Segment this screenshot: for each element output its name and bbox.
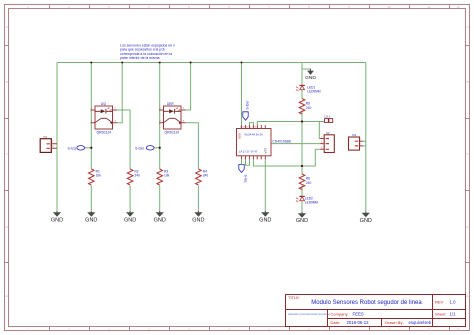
svg-text:10k: 10k: [96, 174, 102, 178]
svg-text:B: B: [467, 80, 469, 84]
svg-text:Drawn By:: Drawn By:: [385, 320, 403, 325]
svg-text:A: A: [467, 25, 469, 29]
wire top GND to LED1: [301, 69, 303, 85]
ground (col R4): [192, 211, 204, 223]
wire M1 pin2 to right rail: [363, 145, 366, 147]
wire IC out to U2 pin2: [271, 143, 320, 145]
op IC U1 CD40106BE: [237, 125, 292, 160]
svg-text:P1: P1: [44, 135, 48, 139]
svg-text:B: B: [6, 80, 8, 84]
resistor R5 240: [299, 99, 311, 115]
svg-text:14 13 12 11 10 9 8: 14 13 12 11 10 9 8: [240, 127, 259, 129]
net label S-Der: [135, 146, 154, 151]
ground (far right): [360, 212, 372, 224]
junction S-Izq node: [90, 147, 92, 149]
junction node A: [301, 120, 303, 122]
ground (col LED2): [296, 212, 308, 224]
svg-text:QRD1114: QRD1114: [97, 131, 112, 135]
wire c3 column (rail to R3): [159, 63, 161, 170]
wire node A branch to U2 pin1: [318, 122, 321, 139]
svg-text:U2: U2: [326, 131, 330, 135]
wire R1 to ground: [90, 186, 92, 212]
wire LED2 to ground: [301, 201, 303, 212]
svg-text:Modulo Sensores Robot segudor: Modulo Sensores Robot segudor de linea: [311, 300, 422, 306]
connector U2: [320, 131, 334, 153]
svg-text:Sheet:: Sheet:: [435, 312, 447, 317]
ground (col R3): [154, 211, 166, 223]
svg-text:E: E: [467, 294, 469, 298]
svg-text:Company:: Company:: [331, 311, 349, 316]
wire rail to IC pin14: [241, 63, 243, 126]
wire GND top rail: [57, 62, 366, 64]
wire IC top loop pins 12-11: [250, 123, 254, 125]
svg-text:TITLE:: TITLE:: [288, 295, 300, 300]
wire R4 to ground: [197, 186, 199, 212]
svg-text:10k: 10k: [164, 174, 170, 178]
svg-text:S-Izq: S-Izq: [68, 147, 76, 151]
resistor R6 240: [299, 174, 311, 190]
svg-text:11: 11: [427, 328, 430, 332]
junction rail/IZQ collector: [121, 61, 123, 63]
wire IC bottom loop pins 2-3: [246, 159, 250, 165]
svg-text:11: 11: [427, 5, 430, 9]
junction rail/DER anode: [190, 61, 192, 63]
resistor R4 240: [196, 169, 209, 185]
wire left column c0: [56, 63, 58, 212]
svg-text:M1: M1: [352, 133, 356, 137]
wire R3 to ground: [159, 186, 161, 212]
wire IZQ collector drop: [117, 63, 122, 123]
svg-text:12: 12: [456, 5, 460, 9]
svg-text:DER: DER: [167, 102, 174, 106]
svg-text:240: 240: [306, 181, 312, 185]
svg-text:12: 12: [456, 328, 460, 332]
wire DER anode drop: [186, 63, 191, 111]
svg-text:S-Der: S-Der: [246, 100, 250, 110]
svg-text:REV: REV: [435, 299, 444, 304]
svg-text:GND: GND: [124, 217, 136, 223]
resistor R2 240: [127, 169, 140, 185]
net flag S-Izq (vertical, below IC pin 1): [239, 159, 248, 182]
wire node B to R6: [301, 166, 303, 174]
svg-text:GND: GND: [192, 217, 204, 223]
wire IC pin9 to node R5: [257, 122, 302, 126]
ground (IC VSS): [259, 211, 271, 223]
svg-text:parte inferior de la misma.: parte inferior de la misma.: [120, 56, 160, 60]
schematic note text: [120, 43, 175, 60]
svg-text:2019-06-12: 2019-06-12: [347, 320, 370, 325]
svg-text:6A 5A 4A 3A 2A: 6A 5A 4A 3A 2A: [245, 133, 263, 137]
svg-text:10: 10: [387, 328, 391, 332]
connector P1: [40, 135, 57, 153]
svg-text:GND: GND: [360, 218, 372, 224]
svg-text:E: E: [6, 294, 8, 298]
net flag S-Der (vertical, above IC pin 13): [243, 100, 250, 120]
wire rail to top GND jog: [302, 63, 311, 71]
svg-text:IZQ: IZQ: [101, 102, 107, 106]
junction S-Der node: [159, 147, 161, 149]
svg-text:A: A: [6, 25, 8, 29]
wire DER collector to R4: [186, 123, 199, 169]
svg-text:1/1: 1/1: [450, 312, 457, 317]
svg-text:CD40106BE: CD40106BE: [272, 139, 292, 143]
svg-text:GND: GND: [51, 217, 63, 223]
svg-text:esquivelseb: esquivelseb: [409, 320, 432, 325]
svg-text:QRD1114: QRD1114: [165, 131, 180, 135]
svg-text:GND: GND: [259, 217, 271, 223]
wire S-Izq stub: [85, 147, 92, 149]
svg-text:240: 240: [306, 106, 312, 110]
wire LED1 to R5: [301, 90, 303, 99]
svg-text:GND: GND: [296, 218, 308, 224]
ground (top right): [305, 69, 316, 81]
wire R6 to LED2: [301, 186, 303, 197]
sensor U4 QRD1114 DER: [159, 102, 186, 135]
ground (col R2): [124, 211, 136, 223]
wire R2 to ground: [129, 186, 131, 212]
svg-text:VSS: VSS: [264, 148, 268, 154]
svg-text:S-Der: S-Der: [135, 147, 145, 151]
jumper U2.1: [324, 114, 332, 122]
wire M1 pin1 to right rail: [363, 140, 366, 142]
junction rail/c3: [159, 61, 161, 63]
diode LED1 LED9MM: [297, 85, 321, 93]
connector M1: [349, 133, 364, 150]
svg-text:easyeda.com/esquivelseb-proyec: easyeda.com/esquivelseb-proyectos: [288, 312, 331, 316]
wire R5 through node A to node B: [301, 111, 303, 167]
svg-text:Date:: Date:: [331, 320, 341, 325]
junction node B: [301, 165, 303, 167]
wire IZQ cathode to R2: [117, 110, 130, 169]
wire far-right drop to GND: [365, 63, 367, 212]
resistor R3 10k: [157, 169, 170, 185]
svg-text:GND: GND: [85, 217, 97, 223]
net label S-Izq: [68, 146, 85, 151]
wire node B to U2 pin3: [302, 149, 320, 166]
sensor U3 QRD1114 IZQ: [91, 102, 118, 135]
svg-text:U2.1: U2.1: [324, 114, 330, 118]
resistor R1 10k: [89, 169, 102, 185]
wire S-Der stub: [154, 147, 159, 149]
title block: [286, 295, 466, 327]
svg-text:LED9MM: LED9MM: [307, 90, 321, 94]
junction rail/c1: [90, 61, 92, 63]
wire IC pin4 to node B: [253, 159, 302, 166]
wire c1 column (rail to R1): [90, 63, 92, 170]
svg-text:LED9MM: LED9MM: [305, 201, 319, 205]
svg-text:240: 240: [134, 174, 140, 178]
wire IC pin7 VSS to ground: [264, 159, 266, 211]
svg-text:S-Izq: S-Izq: [243, 175, 247, 183]
svg-text:GND: GND: [305, 75, 316, 81]
diode LED2 LED9MM: [297, 196, 319, 204]
svg-text:1A 1Y 2Y 3Y 4Y: 1A 1Y 2Y 3Y 4Y: [239, 150, 258, 154]
svg-text:VDD: VDD: [238, 133, 242, 139]
svg-text:240: 240: [203, 174, 209, 178]
svg-text:1.0: 1.0: [450, 299, 457, 304]
svg-text:GND: GND: [154, 217, 166, 223]
svg-text:FEES: FEES: [353, 311, 364, 316]
ground (col c0): [51, 211, 63, 223]
ground (col R1): [85, 211, 97, 223]
wire node A to jumper pad: [302, 121, 325, 123]
svg-text:10: 10: [387, 5, 391, 9]
junction rail/IC vdd: [240, 61, 242, 63]
